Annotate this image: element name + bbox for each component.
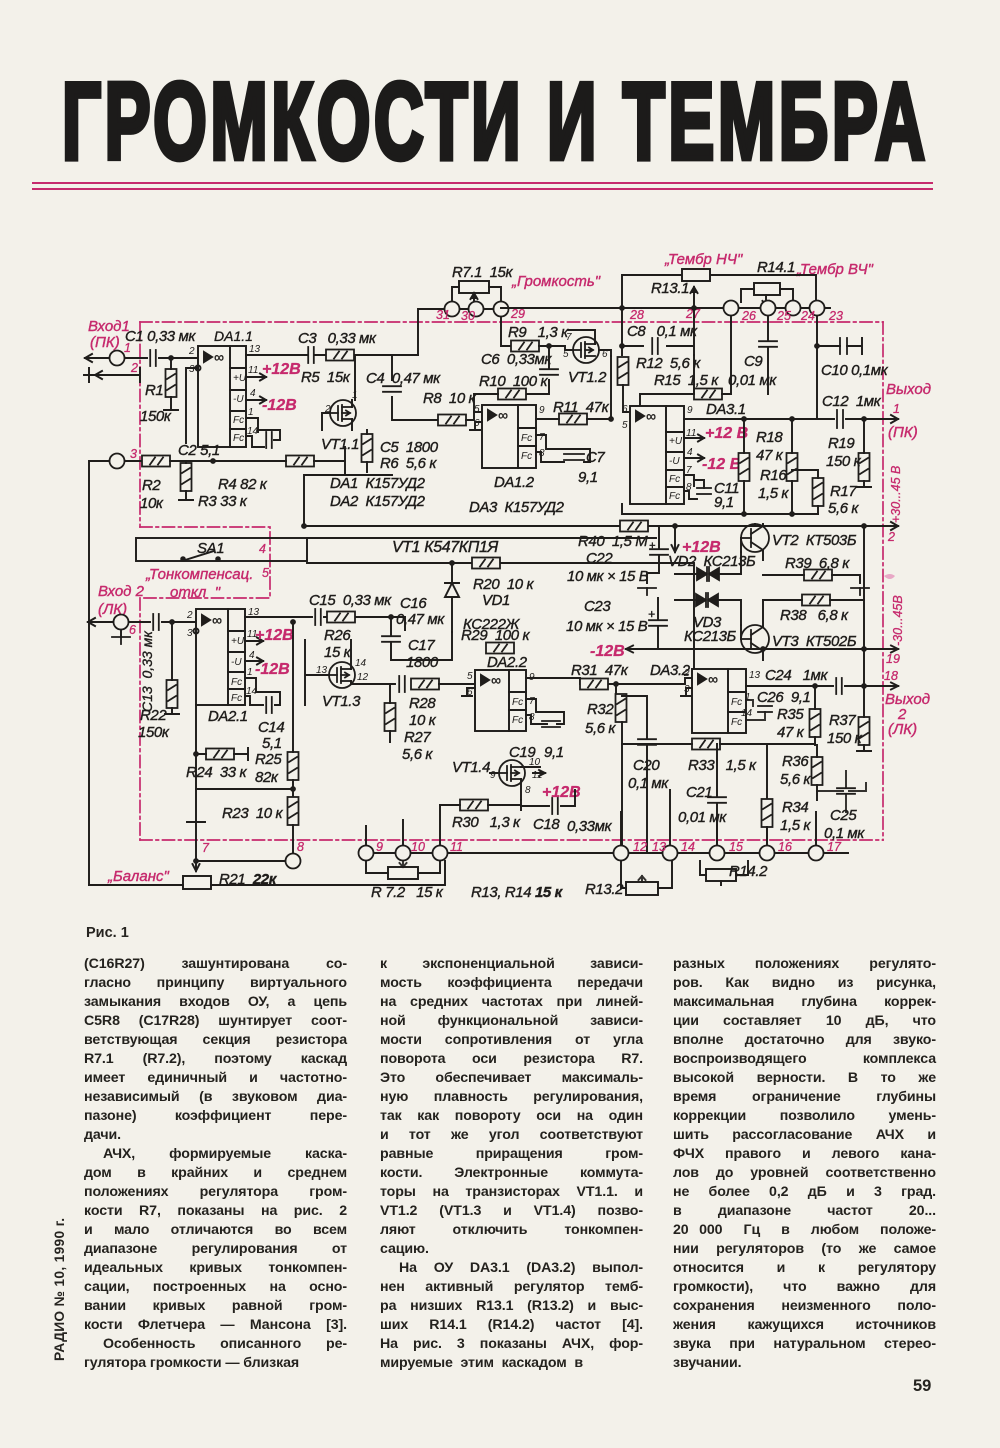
potentiometer R7.2	[388, 861, 418, 879]
svg-text:„Тонкомпенсац.: „Тонкомпенсац.	[145, 566, 253, 583]
svg-text:Fc: Fc	[521, 433, 532, 444]
wire input to C1	[125, 357, 147, 359]
resistor R8	[438, 415, 466, 426]
svg-text:R40 1,5 М: R40 1,5 М	[578, 533, 648, 550]
connector 29	[494, 302, 509, 317]
svg-text:DA1 К157УД2: DA1 К157УД2	[330, 475, 426, 492]
resistor R5	[326, 350, 354, 361]
signal DA2.2 out	[526, 678, 692, 695]
connector 25	[761, 301, 776, 316]
rail y=563	[307, 563, 694, 669]
wire from conn3	[89, 461, 155, 885]
svg-text:13: 13	[652, 840, 666, 854]
svg-text:-U: -U	[669, 456, 680, 467]
svg-text:Fc: Fc	[512, 715, 523, 726]
svg-text:19: 19	[886, 652, 900, 666]
svg-text:С6 0,33мк: С6 0,33мк	[481, 351, 552, 368]
VT1.3 leads	[305, 640, 395, 705]
capacitor C25	[837, 788, 855, 794]
R4 resistor	[286, 456, 314, 467]
svg-text:23: 23	[828, 309, 843, 323]
pink frame notch around SA1	[140, 527, 270, 598]
input arrow	[85, 354, 109, 362]
svg-text:С7: С7	[586, 449, 605, 466]
-U supply arrow	[246, 397, 266, 404]
capacitor C22	[650, 549, 668, 555]
-12 rail wire	[647, 526, 898, 690]
svg-text:3: 3	[684, 684, 690, 695]
svg-text:Fc: Fc	[512, 697, 523, 708]
svg-text:DA2.1: DA2.1	[208, 708, 248, 725]
svg-text:13: 13	[749, 670, 761, 681]
potentiometer R14.1	[754, 283, 780, 307]
connector 24	[786, 301, 801, 316]
svg-text:10: 10	[411, 840, 425, 854]
+12V takeoff arrow	[672, 526, 679, 552]
svg-text:7: 7	[686, 465, 692, 476]
transistor VT1.1	[330, 400, 356, 426]
svg-text:3: 3	[130, 447, 137, 461]
resistor R6	[362, 434, 373, 462]
transistor VT2	[741, 524, 769, 552]
svg-text:R6 5,6 к: R6 5,6 к	[380, 455, 437, 472]
svg-text:9,1: 9,1	[714, 494, 734, 511]
svg-text:„Громкость": „Громкость"	[511, 273, 601, 290]
svg-text:2: 2	[186, 610, 193, 621]
svg-text:VT1.1: VT1.1	[321, 436, 359, 453]
svg-text:DA3.1: DA3.1	[706, 401, 746, 418]
resistor R24	[206, 749, 234, 760]
resistor R16	[787, 453, 798, 481]
svg-text:+U: +U	[233, 373, 247, 384]
ground R39	[851, 588, 869, 595]
tone bus	[501, 307, 830, 309]
svg-text:+30...45 В: +30...45 В	[889, 466, 903, 523]
svg-text:С10 0,1мк: С10 0,1мк	[821, 362, 889, 379]
svg-text:(ЛК): (ЛК)	[888, 721, 917, 738]
svg-text:С22: С22	[586, 550, 613, 567]
connector 9	[359, 846, 374, 861]
svg-text:С5 1800: С5 1800	[380, 439, 439, 456]
svg-text:С23: С23	[584, 598, 611, 615]
wire R4 net	[213, 447, 392, 475]
svg-text:5,6 к: 5,6 к	[402, 746, 433, 763]
svg-text:R14.1: R14.1	[757, 259, 795, 276]
svg-text:R24 33 к: R24 33 к	[186, 764, 248, 781]
pink frame right edge	[882, 322, 884, 840]
connector 12	[614, 846, 629, 861]
C7 net	[536, 435, 590, 462]
svg-text:12: 12	[357, 672, 369, 683]
transistor VT1.4	[499, 760, 525, 786]
svg-text:9: 9	[539, 405, 545, 416]
potentiometer R13.1	[682, 269, 710, 307]
svg-text:С13 0,33 мк: С13 0,33 мк	[139, 630, 155, 712]
resistor R9	[511, 341, 539, 352]
wire C4 down	[392, 397, 440, 420]
svg-text:5,6 к: 5,6 к	[828, 500, 859, 517]
rail +30V y=527	[304, 522, 898, 530]
connector 26	[724, 301, 739, 316]
svg-text:Выход: Выход	[885, 691, 930, 708]
ground to R21	[187, 789, 205, 871]
resistor R29	[486, 643, 514, 654]
svg-text:150к: 150к	[138, 724, 170, 741]
pink frame left edge upper	[139, 322, 141, 527]
zener VD2	[695, 567, 721, 581]
opamp DA1.1	[198, 346, 246, 447]
connector input2	[114, 615, 129, 630]
svg-text:17: 17	[827, 840, 842, 854]
svg-text:-U: -U	[231, 657, 242, 668]
+U arrow DA3.1	[684, 435, 704, 442]
svg-text:1: 1	[248, 407, 254, 418]
svg-text:2: 2	[683, 668, 690, 679]
svg-text:„Баланс": „Баланс"	[107, 868, 169, 885]
capacitor C18	[552, 798, 558, 814]
potentiometer R7.1	[459, 281, 489, 302]
potentiometer R13.2	[626, 876, 658, 895]
svg-text:(ПК): (ПК)	[888, 424, 918, 441]
svg-text:10 к: 10 к	[409, 712, 437, 729]
resistor R23	[288, 797, 299, 825]
pin1/14 Fc wires and C2	[246, 418, 264, 447]
capacitor C11	[697, 488, 711, 494]
svg-text:С1 0,33 мк: С1 0,33 мк	[125, 328, 196, 345]
capacitor C14	[266, 697, 272, 713]
svg-text:0,33мк: 0,33мк	[567, 818, 612, 835]
wire R9 junction	[539, 346, 572, 368]
svg-text:11: 11	[450, 840, 463, 854]
svg-text:14: 14	[681, 840, 695, 854]
svg-text:R38 6,8 к: R38 6,8 к	[780, 607, 849, 624]
capacitor C26	[758, 706, 772, 712]
resistor R22	[167, 680, 178, 708]
pink frame bottom edge	[140, 839, 883, 841]
svg-text:С12 1мк: С12 1мк	[822, 393, 882, 410]
connector X1 input1	[110, 351, 125, 366]
svg-text:9,1: 9,1	[544, 744, 564, 761]
resistor R15	[694, 389, 722, 400]
input2 arrow	[88, 618, 113, 626]
svg-text:9: 9	[376, 840, 383, 854]
svg-text:8: 8	[686, 482, 692, 493]
wire 27 down C8	[622, 308, 694, 355]
svg-text:R17: R17	[830, 483, 857, 500]
svg-text:15: 15	[729, 840, 743, 854]
svg-text:1,5 к: 1,5 к	[758, 485, 789, 502]
resistor R2	[142, 456, 170, 467]
wire R8 to DA1.2	[466, 412, 482, 420]
svg-text:Fc: Fc	[233, 433, 244, 444]
svg-text:7: 7	[566, 332, 572, 343]
svg-text:8: 8	[539, 448, 545, 459]
svg-text:R5 15к: R5 15к	[301, 369, 351, 386]
svg-text:R14.2: R14.2	[729, 863, 768, 880]
svg-text:12: 12	[633, 840, 647, 854]
svg-text:25: 25	[776, 309, 791, 323]
+U supply arrow	[246, 374, 266, 381]
svg-text:∞: ∞	[212, 612, 222, 628]
resistor R19	[859, 453, 870, 481]
svg-text:∞: ∞	[214, 349, 224, 365]
svg-text:26: 26	[741, 309, 756, 323]
VT1.2 drain wire	[568, 330, 611, 356]
svg-text:R8 10 к: R8 10 к	[423, 390, 477, 407]
zener VD3	[694, 593, 720, 607]
svg-text:VT2 КТ503Б: VT2 КТ503Б	[772, 532, 857, 549]
ground stub node2	[95, 368, 140, 382]
svg-text:R2: R2	[142, 477, 161, 494]
svg-text:С24 1мк: С24 1мк	[765, 667, 828, 684]
capacitor C17	[399, 676, 405, 692]
svg-text:∞: ∞	[491, 672, 501, 688]
svg-text:47 к: 47 к	[756, 447, 784, 464]
svg-text:11: 11	[248, 365, 258, 376]
DA1.2 pin6 gnd	[470, 422, 482, 430]
R7.1 wires to connectors	[452, 287, 501, 302]
svg-text:VT1.2: VT1.2	[568, 369, 607, 386]
svg-text:Fc: Fc	[731, 697, 742, 708]
svg-text:+U: +U	[669, 436, 683, 447]
connector 13	[663, 846, 678, 861]
opamp DA1.2	[482, 405, 536, 468]
svg-text:VT1.4: VT1.4	[452, 759, 490, 776]
wires circles 12-16	[629, 852, 848, 854]
resistor R40	[620, 521, 648, 532]
svg-text:-12В: -12В	[590, 643, 625, 660]
svg-text:С26 9,1: С26 9,1	[757, 689, 811, 706]
resistor R31	[580, 679, 608, 690]
svg-text:1,5 к: 1,5 к	[780, 817, 811, 834]
svg-text:8: 8	[297, 840, 304, 854]
wire 7 to 8	[196, 860, 285, 862]
svg-text:С3 0,33 мк: С3 0,33 мк	[298, 330, 377, 347]
rail y=538 from SA1	[307, 537, 656, 539]
DA3.2 pin3 gnd	[681, 688, 692, 696]
svg-text:4: 4	[249, 650, 255, 661]
svg-text:7: 7	[539, 432, 545, 443]
svg-text:82к: 82к	[255, 769, 279, 786]
svg-text:R32: R32	[587, 701, 614, 718]
svg-text:R25: R25	[255, 751, 282, 768]
svg-text:5,6 к: 5,6 к	[585, 720, 616, 737]
svg-text:14: 14	[247, 426, 259, 437]
svg-text:С2 5,1: С2 5,1	[178, 442, 220, 459]
capacitor C10	[840, 338, 847, 354]
svg-text:С18: С18	[533, 816, 560, 833]
-12V rail arrow	[626, 646, 647, 653]
DA2.2 gnd	[462, 688, 475, 696]
svg-text:КС213Б: КС213Б	[684, 628, 737, 645]
svg-text:47 к: 47 к	[777, 724, 805, 741]
capacitor C21	[708, 797, 726, 803]
svg-text:+12 В: +12 В	[705, 425, 748, 442]
opamp DA2.1	[196, 609, 245, 705]
svg-text:VD1: VD1	[482, 592, 510, 609]
svg-text:R35: R35	[777, 706, 804, 723]
diode VD1	[445, 563, 459, 632]
svg-text:R28: R28	[409, 695, 436, 712]
C24 wire	[746, 685, 864, 687]
capacitor C12	[837, 410, 843, 428]
ground input2	[120, 630, 122, 637]
connector 31	[445, 302, 460, 317]
svg-text:0,01 мк: 0,01 мк	[678, 809, 727, 826]
svg-text:R13.1: R13.1	[651, 280, 689, 297]
svg-text:9: 9	[490, 770, 496, 781]
-U arrow DA2.1	[245, 658, 263, 665]
resistor R27	[385, 703, 396, 731]
svg-text:Fc: Fc	[231, 677, 242, 688]
svg-text:9,1: 9,1	[578, 469, 598, 486]
svg-text:8: 8	[525, 785, 531, 796]
svg-text:+U: +U	[231, 636, 245, 647]
capacitor C23	[649, 620, 667, 626]
svg-text:С14: С14	[258, 719, 284, 736]
output wire pin13	[246, 354, 308, 356]
VT1.4 leads	[490, 767, 545, 800]
svg-text:С25: С25	[830, 807, 857, 824]
svg-text:R15 1,5 к: R15 1,5 к	[654, 372, 719, 389]
junction dots tone bus	[619, 305, 625, 311]
bottom bus DA3.1	[622, 504, 818, 514]
svg-text:R10 100 к: R10 100 к	[479, 373, 548, 390]
connector X input3	[110, 454, 125, 469]
svg-text:0,1 мк: 0,1 мк	[628, 775, 669, 792]
svg-text:1800: 1800	[406, 654, 439, 671]
svg-text:5: 5	[467, 671, 473, 682]
svg-text:+: +	[648, 607, 655, 621]
svg-text:R1: R1	[145, 382, 163, 399]
smudge pink mark	[884, 574, 895, 579]
svg-text:DA1.2: DA1.2	[494, 474, 535, 491]
svg-text:∞: ∞	[646, 408, 656, 424]
svg-text:2: 2	[887, 530, 895, 544]
svg-text:С16: С16	[400, 595, 427, 612]
svg-text:Fc: Fc	[669, 474, 680, 485]
opamp DA3.1	[630, 406, 684, 504]
svg-text:R7.1 15к: R7.1 15к	[452, 264, 514, 281]
svg-text:VD2 КС213Б: VD2 КС213Б	[668, 553, 756, 570]
svg-text:R12 5,6 к: R12 5,6 к	[636, 355, 701, 372]
R25 wires	[196, 622, 293, 797]
svg-text:16: 16	[778, 840, 792, 854]
resistor R26	[327, 612, 355, 623]
svg-text:R3 33 к: R3 33 к	[198, 493, 248, 510]
svg-text:∞: ∞	[708, 671, 718, 687]
svg-text:1: 1	[745, 692, 751, 703]
svg-text:29: 29	[510, 307, 525, 321]
connector 30	[469, 302, 484, 317]
svg-text:-U: -U	[233, 394, 244, 405]
wire R12 down	[623, 385, 628, 412]
svg-text:2: 2	[188, 346, 195, 357]
+U arrow DA2.1	[245, 638, 263, 645]
svg-text:5: 5	[622, 420, 628, 431]
svg-text:∞: ∞	[498, 407, 508, 423]
svg-text:150 к: 150 к	[826, 453, 862, 470]
svg-text:7: 7	[202, 841, 210, 855]
resistor R39	[804, 570, 832, 581]
wire C13 to DA2.1	[162, 621, 196, 623]
svg-text:(ПК): (ПК)	[90, 334, 120, 351]
ground sym	[84, 368, 94, 382]
svg-text:1: 1	[893, 402, 900, 416]
wire R23 to conn8	[292, 825, 294, 853]
svg-text:14: 14	[355, 658, 367, 669]
wire R2 to R3	[170, 460, 213, 462]
svg-text:31: 31	[436, 308, 450, 322]
svg-text:8: 8	[529, 712, 535, 723]
wire C1 to DA1.1	[159, 357, 198, 359]
svg-text:R 7.2 15 к: R 7.2 15 к	[371, 884, 444, 901]
svg-text:-12 В: -12 В	[702, 456, 741, 473]
svg-text:R13, R14 15 к: R13, R14 15 к	[471, 884, 564, 901]
svg-text:9: 9	[687, 405, 693, 416]
svg-text:5: 5	[563, 349, 569, 360]
svg-text:С4 0,47 мк: С4 0,47 мк	[366, 370, 441, 387]
svg-text:R18: R18	[756, 429, 783, 446]
connector 14	[710, 846, 725, 861]
capacitor C3	[308, 347, 314, 363]
svg-text:4: 4	[259, 542, 266, 556]
resistor R17	[813, 478, 824, 506]
transistor VT1.2	[573, 337, 599, 363]
switch SA1	[136, 538, 307, 561]
resistor R38	[802, 595, 830, 606]
DA3.1 output wire to Выход1	[684, 415, 898, 423]
R11	[559, 414, 587, 425]
main signal wire C3 R5	[305, 355, 418, 400]
svg-text:10 мк × 15 В: 10 мк × 15 В	[566, 618, 648, 635]
svg-text:R36: R36	[782, 753, 809, 770]
svg-text:6: 6	[622, 404, 628, 415]
svg-text:-30...45В: -30...45В	[891, 595, 905, 646]
signal wire DA2.1 out	[245, 617, 405, 630]
capacitor C6	[540, 369, 558, 375]
svg-text:R39 6,8 к: R39 6,8 к	[785, 555, 850, 572]
svg-text:+12В: +12В	[255, 627, 294, 644]
C20	[638, 739, 656, 745]
svg-text:Fc: Fc	[731, 717, 742, 728]
svg-text:0,47 мк: 0,47 мк	[396, 611, 445, 628]
potentiometer R14.2	[706, 869, 736, 881]
svg-text:18: 18	[884, 669, 898, 683]
resistor R35	[810, 709, 821, 737]
svg-text:R4 82 к: R4 82 к	[218, 476, 268, 493]
resistor R20	[472, 558, 500, 569]
svg-text:R26: R26	[324, 627, 351, 644]
svg-text:-12В: -12В	[262, 397, 297, 414]
svg-text:SA1: SA1	[197, 540, 224, 557]
capacitor C19	[542, 721, 560, 727]
R15 wires	[640, 316, 731, 412]
capacitor C16	[382, 636, 400, 642]
svg-text:R23 10 к: R23 10 к	[222, 805, 284, 822]
svg-text:VT3 КТ502Б: VT3 КТ502Б	[772, 633, 857, 650]
svg-text:R9 1,3 к: R9 1,3 к	[508, 324, 569, 341]
svg-text:15 к: 15 к	[324, 644, 352, 661]
svg-text:4: 4	[687, 447, 693, 458]
capacitor C8	[652, 338, 658, 354]
svg-text:3: 3	[189, 364, 195, 375]
connector 16	[809, 846, 824, 861]
resistor R33	[692, 739, 720, 750]
svg-text:VT1 К547КП1Я: VT1 К547КП1Я	[392, 539, 498, 556]
svg-text:С8 0,1 мк: С8 0,1 мк	[627, 323, 698, 340]
resistor R32	[616, 694, 627, 722]
